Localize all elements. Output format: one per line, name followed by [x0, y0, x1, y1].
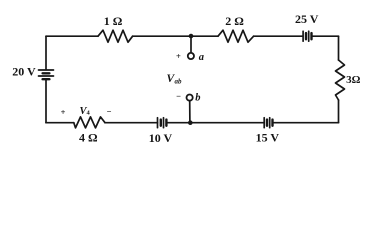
wire left vertical upper: [45, 36, 47, 70]
battery 15V plates: [264, 118, 272, 128]
svg-text:+: +: [176, 51, 181, 61]
battery 25V plates: [303, 31, 311, 41]
svg-text:4 Ω: 4 Ω: [79, 131, 98, 145]
svg-text:1 Ω: 1 Ω: [104, 14, 123, 28]
wire node-b junction to 10V: [167, 122, 191, 124]
svg-text:3Ω: 3Ω: [346, 74, 361, 86]
wire 10V to 4-ohm: [105, 122, 158, 124]
wire 25V to top-right corner: [312, 35, 339, 37]
battery 10V plates: [158, 118, 167, 128]
wire right vertical lower: [338, 100, 340, 123]
svg-text:20 V: 20 V: [12, 65, 36, 79]
wire bottom right (corner to 15V): [273, 122, 339, 124]
resistor R 2 ohm: [218, 30, 254, 42]
wire right vertical upper: [338, 36, 340, 60]
battery 20V plates: [39, 70, 54, 79]
svg-text:10 V: 10 V: [149, 131, 173, 145]
svg-text:−: −: [107, 107, 112, 117]
svg-text:ab: ab: [175, 78, 183, 86]
resistor R 1 ohm: [98, 30, 133, 42]
wire left vertical lower: [45, 80, 47, 123]
svg-text:2 Ω: 2 Ω: [225, 14, 244, 28]
junction dot on top wire: [189, 34, 194, 39]
wire 15V to node-b junction: [191, 122, 265, 124]
svg-text:4: 4: [87, 110, 91, 117]
svg-text:25 V: 25 V: [295, 12, 319, 26]
resistor R 4 ohm: [74, 117, 105, 128]
resistor R 3 ohm (vertical): [336, 60, 345, 100]
wire top-left horizontal (left corner to 1-ohm): [46, 35, 98, 37]
terminal circle a: [188, 53, 194, 59]
svg-text:+: +: [61, 107, 66, 117]
junction dot on bottom wire: [188, 120, 193, 125]
svg-text:15 V: 15 V: [256, 131, 280, 145]
svg-text:b: b: [195, 93, 200, 104]
wire 4-ohm to bottom-left corner: [46, 122, 74, 124]
wire stub node a: [190, 36, 192, 52]
wire 2-ohm to 25V battery: [254, 35, 303, 37]
wire stub node b: [189, 101, 191, 123]
wire top middle (1-ohm to 2-ohm, through node dot): [133, 35, 218, 37]
svg-text:a: a: [199, 52, 204, 63]
svg-text:−: −: [176, 91, 181, 101]
terminal circle b: [187, 95, 193, 101]
